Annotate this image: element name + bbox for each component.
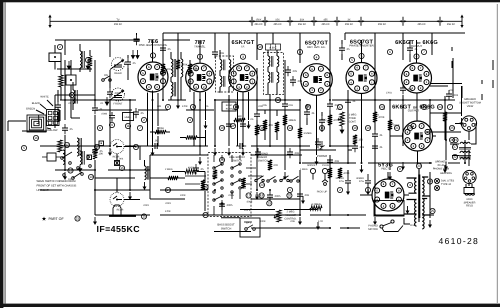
svg-text:4610-28: 4610-28 <box>439 236 480 246</box>
svg-text:.002: .002 <box>449 89 454 92</box>
band coil lower left <box>80 151 84 165</box>
component marker 32 <box>407 182 412 187</box>
antenna coil L1 <box>77 138 82 156</box>
svg-text:HMEL: HMEL <box>125 116 132 119</box>
svg-text:470K: 470K <box>165 210 171 213</box>
svg-text:.01: .01 <box>99 108 103 111</box>
svg-text:23: 23 <box>422 105 426 109</box>
resistor R40 <box>59 75 63 87</box>
wire left column extra <box>58 60 80 122</box>
capacitor C32 <box>125 58 136 68</box>
capacitor C33 <box>134 35 140 45</box>
svg-text:I.F.: I.F. <box>241 44 245 48</box>
component marker 27 <box>219 157 224 162</box>
wave switch wafer 1 <box>213 163 223 205</box>
switch shaft outline <box>113 205 121 216</box>
border frame top black line <box>0 0 500 2</box>
IFT T2 secondary coil <box>229 60 231 71</box>
IFT T2 primary coil lower <box>220 76 225 87</box>
resistor R32 <box>186 135 197 139</box>
wire bus y240 <box>404 218 410 224</box>
capacitor C26 <box>219 200 233 210</box>
svg-text:PART OF: PART OF <box>49 217 65 221</box>
capacitor C7 <box>240 120 251 130</box>
volume control arrow <box>274 215 278 218</box>
svg-text:10K: 10K <box>68 178 73 181</box>
svg-text:5: 5 <box>23 146 25 150</box>
oscillator tank coil <box>145 166 149 180</box>
svg-text:10: 10 <box>258 45 262 49</box>
svg-text:.02: .02 <box>326 120 330 123</box>
capacitor C16 .002 <box>446 90 459 100</box>
tube U6 6K6GT output <box>402 63 432 93</box>
tube U7 6K6GT output 2 <box>403 121 433 151</box>
band switch wafer contacts <box>61 152 92 179</box>
svg-text:17: 17 <box>247 194 251 198</box>
svg-text:9: 9 <box>111 123 113 127</box>
IFT T3 secondary lower <box>277 72 279 83</box>
svg-text:15X: 15X <box>275 18 280 21</box>
capacitor C12 <box>352 142 365 152</box>
svg-text:455 KC: 455 KC <box>273 23 282 26</box>
phono-radio switch contact 2 <box>267 176 276 182</box>
capacitor C24 <box>92 146 103 156</box>
wire top bus segments <box>55 33 465 40</box>
svg-text:120Ω: 120Ω <box>321 119 327 122</box>
svg-text:YELLOW: YELLOW <box>47 129 58 132</box>
svg-text:270Ω: 270Ω <box>240 187 246 190</box>
svg-text:7: 7 <box>423 50 425 54</box>
svg-text:.005: .005 <box>262 104 267 107</box>
resistor R24 <box>213 170 217 179</box>
capacitor C1 .05 <box>62 124 73 134</box>
resistor R26 270ohm <box>241 178 245 188</box>
svg-text:29: 29 <box>260 183 264 187</box>
ground G16 <box>360 165 364 173</box>
high boost switch label <box>229 156 246 162</box>
ground G15 <box>301 196 305 204</box>
filter capacitor C31 <box>356 174 371 187</box>
resistor R22 <box>234 115 245 122</box>
ground G6 <box>198 157 202 165</box>
marker tb2 <box>187 117 192 122</box>
marker ws2 <box>119 165 124 170</box>
capacitor C8 <box>226 120 236 130</box>
svg-text:4.7K: 4.7K <box>318 220 323 223</box>
svg-text:275v: 275v <box>359 180 365 183</box>
svg-text:13: 13 <box>69 169 73 173</box>
marker lm2 <box>68 168 73 173</box>
svg-text:24: 24 <box>438 105 442 109</box>
capacitor C19 <box>254 110 260 120</box>
antenna coupling coil <box>73 90 77 104</box>
component marker 14 <box>305 104 310 109</box>
output transformer winding lower <box>459 151 471 159</box>
svg-text:4: 4 <box>189 118 191 122</box>
tone control arrow <box>338 118 342 121</box>
marker ws5 <box>203 212 208 217</box>
svg-text:13: 13 <box>276 98 280 102</box>
ground G1 <box>63 172 67 180</box>
filter capacitor C30 <box>335 174 351 187</box>
svg-text:13: 13 <box>89 175 93 179</box>
svg-text:.05: .05 <box>99 150 103 153</box>
tone control label <box>349 114 357 124</box>
svg-text:.0001: .0001 <box>165 202 172 205</box>
wire wafer leads <box>117 147 205 212</box>
terminal square a <box>99 141 104 146</box>
resistor R10 <box>283 115 296 125</box>
svg-text:47K: 47K <box>166 68 171 71</box>
svg-text:GREEN: GREEN <box>26 108 35 111</box>
svg-text:15: 15 <box>306 105 310 109</box>
svg-text:6: 6 <box>99 126 101 130</box>
wire tube1 top lead <box>152 40 154 63</box>
component marker 16 <box>337 104 342 109</box>
svg-text:455 KC: 455 KC <box>378 23 387 26</box>
loop antenna <box>27 115 46 132</box>
svg-text:RECT.: RECT. <box>381 167 389 171</box>
svg-text:.05: .05 <box>132 62 136 65</box>
wave switch assembly box <box>208 153 251 217</box>
svg-text:115V: 115V <box>410 224 416 227</box>
wire tube bottom pairs <box>148 92 249 146</box>
svg-text:2 MEG: 2 MEG <box>165 168 173 171</box>
arrow below tone control <box>340 126 344 133</box>
svg-text:.01: .01 <box>379 134 383 137</box>
resistor R2 <box>58 140 62 152</box>
svg-text:IF=455KC: IF=455KC <box>97 224 141 234</box>
capacitor C10 <box>290 76 303 86</box>
capacitor C5 <box>160 44 171 54</box>
svg-text:7: 7 <box>449 105 451 109</box>
capacitor C29 <box>327 156 340 166</box>
component box left mid <box>42 153 61 161</box>
wire tube2 top lead <box>199 40 201 63</box>
ground G3 <box>128 192 132 200</box>
svg-text:18: 18 <box>353 126 357 130</box>
ground G4 <box>151 148 155 156</box>
wire bus y163 <box>300 150 460 163</box>
wire heater bus <box>375 214 434 216</box>
svg-text:.006: .006 <box>219 52 225 55</box>
arrow down a <box>67 61 71 69</box>
svg-text:VIEW: VIEW <box>467 105 474 108</box>
svg-text:.01: .01 <box>352 100 356 103</box>
svg-text:PHONO: PHONO <box>317 154 328 158</box>
svg-text:REAR: REAR <box>114 72 121 75</box>
IFT T3 primary coil <box>268 56 273 67</box>
svg-text:21: 21 <box>395 126 399 130</box>
svg-text:455: 455 <box>323 18 328 21</box>
resistor R39 <box>201 180 205 190</box>
ground G25 <box>108 148 112 156</box>
capacitor C37 <box>339 44 350 54</box>
wire tube7 leads <box>390 136 436 163</box>
capacitor C6 <box>212 48 225 58</box>
resistor R14 <box>373 112 385 122</box>
svg-text:8: 8 <box>299 50 301 54</box>
IFT T2 primary coil <box>220 60 225 71</box>
component marker 17 <box>352 125 357 130</box>
svg-text:470K: 470K <box>343 172 349 175</box>
resistor R3 <box>93 148 103 159</box>
ground G14 <box>316 222 320 230</box>
component marker 3 <box>69 92 74 97</box>
capacitor C20 <box>282 100 288 110</box>
border frame inner left line <box>4 2 7 303</box>
component marker 5 <box>97 125 102 130</box>
svg-text:12: 12 <box>65 143 69 147</box>
marker tb3 <box>230 123 235 128</box>
svg-text:220K: 220K <box>260 220 266 223</box>
component marker 25 <box>449 137 454 142</box>
wire bus y110 <box>95 109 300 111</box>
svg-text:PLUG: PLUG <box>322 164 329 167</box>
svg-text:WHITE: WHITE <box>40 96 49 99</box>
arrow down b <box>86 60 90 69</box>
resistor R5 <box>188 64 198 74</box>
tube U3 6SK7GT <box>229 63 258 92</box>
svg-text:.006: .006 <box>334 160 340 163</box>
resistor R4 <box>161 64 171 74</box>
speaker field label <box>464 198 476 208</box>
svg-text:455 KC: 455 KC <box>321 23 330 26</box>
svg-text:27K: 27K <box>273 164 278 167</box>
svg-text:.05: .05 <box>69 128 73 131</box>
phono-radio switch contact 3 <box>280 176 289 182</box>
component marker 21 <box>407 125 412 130</box>
scattered value labels <box>68 89 454 227</box>
svg-text:.05: .05 <box>346 48 350 51</box>
wave switch wafer rear lower <box>110 193 124 212</box>
wire speaker leads <box>426 113 477 186</box>
svg-text:22: 22 <box>408 126 412 130</box>
bass boost jack box <box>240 218 260 237</box>
component marker 15 <box>319 125 324 130</box>
component marker 18 <box>365 125 370 130</box>
ground G12 <box>298 217 302 225</box>
ground tube pair a <box>156 127 160 135</box>
power transformer T5 <box>405 169 431 229</box>
antenna primary coil <box>80 51 84 68</box>
svg-text:14: 14 <box>166 188 170 192</box>
wire wafer connections <box>185 155 262 215</box>
svg-text:28: 28 <box>220 158 224 162</box>
component marker 13 <box>287 125 292 130</box>
marker ws6 <box>165 187 170 192</box>
capacitor C14 <box>372 130 383 140</box>
capacitor C44 <box>255 148 261 158</box>
ground below tank coil <box>143 182 147 190</box>
speaker plug <box>463 170 476 183</box>
capacitor C48 .0008 in shield <box>101 112 115 128</box>
svg-text:455 KC: 455 KC <box>114 23 123 26</box>
svg-text:HEATERS: HEATERS <box>440 172 452 175</box>
ground below C30 <box>346 187 350 195</box>
capacitor C4 <box>133 108 144 118</box>
resistor R9 <box>255 125 267 135</box>
svg-text:456 KC: 456 KC <box>298 23 307 26</box>
svg-text:16: 16 <box>320 126 324 130</box>
svg-text:270Ω: 270Ω <box>386 92 392 95</box>
volume control label <box>284 211 297 221</box>
resistor R31 <box>155 127 166 134</box>
wire tube5 top lead <box>361 40 363 63</box>
svg-text:CONT.: CONT. <box>349 120 357 123</box>
capacitor C43 <box>193 164 204 174</box>
speaker field coil 600 ohm <box>464 184 475 195</box>
wave switch wafer 2 <box>231 163 241 193</box>
svg-text:A B C: A B C <box>269 45 276 49</box>
svg-text:.01: .01 <box>311 112 315 115</box>
svg-text:1 MEG: 1 MEG <box>300 168 308 171</box>
wire bus y199 <box>150 198 300 200</box>
svg-text:10K: 10K <box>358 139 363 142</box>
tube U8 5Y3G rectifier <box>372 179 404 211</box>
resistor R38 <box>168 176 178 180</box>
ground G2 <box>93 217 97 225</box>
resistor R6 470K <box>176 60 188 69</box>
antenna leads <box>36 100 53 129</box>
svg-text:.0005: .0005 <box>226 204 233 207</box>
component marker 10 <box>233 104 238 109</box>
wire extra left <box>8 33 137 131</box>
IF transformer T3 box <box>264 53 284 95</box>
ground G18 <box>388 172 392 180</box>
svg-text:.006: .006 <box>318 148 323 151</box>
component marker 35 <box>421 49 426 54</box>
svg-text:FRONT: FRONT <box>114 103 123 106</box>
svg-text:.003: .003 <box>297 80 303 83</box>
resistor R19 <box>328 168 332 178</box>
svg-text:22K: 22K <box>157 105 162 108</box>
svg-text:BLACK: BLACK <box>32 102 41 105</box>
svg-text:.0005: .0005 <box>246 201 253 204</box>
IFT T3 part number <box>257 44 262 49</box>
tube U2 7H7 <box>186 63 215 92</box>
oscillator padder coil <box>171 82 176 96</box>
svg-text:3: 3 <box>242 55 244 59</box>
wire tube8 leads <box>360 172 409 195</box>
power transformer marker top <box>416 163 421 168</box>
wire y218 jack lead <box>221 217 240 219</box>
svg-text:BASS BOOST: BASS BOOST <box>217 224 235 227</box>
terminal box left <box>66 75 76 85</box>
capacitor C42 <box>287 148 300 158</box>
component marker 6 <box>137 125 142 130</box>
wire osc coil leads <box>171 52 181 100</box>
svg-text:.005: .005 <box>292 70 298 73</box>
switch index box <box>115 161 120 166</box>
svg-text:470K: 470K <box>378 116 384 119</box>
ground G20 <box>428 220 432 228</box>
capacitor C27 <box>297 190 310 200</box>
phono motor switch <box>380 220 403 232</box>
svg-text:310Ω: 310Ω <box>373 114 379 117</box>
wire bus y215 <box>95 214 404 216</box>
component marker 12 <box>275 97 280 102</box>
dial lamp 1 <box>434 178 439 183</box>
svg-text:4: 4 <box>409 183 411 187</box>
IF transformer T2 box <box>216 56 234 92</box>
svg-text:26: 26 <box>450 138 454 142</box>
phono socket and plug <box>310 168 328 185</box>
wave switch note <box>37 180 77 192</box>
svg-text:270Ω: 270Ω <box>255 194 261 197</box>
wire vertical drops from top <box>65 33 432 63</box>
svg-text:9: 9 <box>192 105 194 109</box>
svg-text:1: 1 <box>289 188 291 192</box>
svg-text:.05: .05 <box>167 48 171 51</box>
svg-text:ON: ON <box>104 74 108 77</box>
wire center verticals <box>153 50 404 215</box>
svg-text:12: 12 <box>260 126 264 130</box>
svg-text:SOCKET: SOCKET <box>307 164 317 167</box>
svg-text:.006: .006 <box>304 194 310 197</box>
svg-text:275v: 275v <box>339 180 345 183</box>
loop antenna marker <box>33 135 38 140</box>
component marker 22 <box>421 104 426 109</box>
component marker 29 <box>287 187 292 192</box>
capacitor C15 <box>400 84 413 94</box>
component marker 8 <box>190 104 195 109</box>
marker lm1 <box>64 142 69 147</box>
component marker 33 <box>349 57 354 62</box>
phono motor label <box>368 225 378 231</box>
output transformer winding upper <box>459 142 471 149</box>
ground G8 <box>227 148 231 156</box>
dial scale line <box>50 20 462 22</box>
IFT T3 leads <box>268 50 277 95</box>
svg-text:.003: .003 <box>359 146 365 149</box>
svg-text:1 MEG: 1 MEG <box>303 132 311 135</box>
wire extra mid <box>150 40 410 140</box>
svg-text:15: 15 <box>134 145 138 149</box>
svg-text:455 KC: 455 KC <box>345 23 354 26</box>
svg-text:3: 3 <box>87 58 89 62</box>
ground G9 <box>241 148 245 156</box>
svg-text:.01: .01 <box>414 48 418 51</box>
svg-text:455 KC: 455 KC <box>417 23 426 26</box>
resistor R12 <box>328 115 340 125</box>
volume pot arrow symbol <box>320 141 325 150</box>
svg-text:7: 7 <box>139 126 141 130</box>
power transformer marker right low <box>430 208 435 213</box>
svg-text:16: 16 <box>34 136 38 140</box>
ground G7 <box>213 148 217 156</box>
svg-text:470K: 470K <box>182 105 188 108</box>
rectifier base outline <box>374 201 404 217</box>
wire bus y209 <box>240 209 317 211</box>
ground G17 <box>373 217 377 225</box>
capacitor C9 <box>285 66 298 76</box>
component marker 19 <box>379 104 384 109</box>
component marker 30 <box>337 187 342 192</box>
resistor R20 4.7MEG <box>310 203 322 210</box>
border frame right gray line <box>497 4 498 303</box>
ground G24 <box>460 118 464 126</box>
svg-text:25: 25 <box>450 126 454 130</box>
component marker 28 <box>259 182 264 187</box>
svg-text:8: 8 <box>399 167 401 171</box>
power transformer marker right <box>427 179 432 184</box>
oscillator coil L2 primary <box>171 59 176 77</box>
svg-text:11: 11 <box>126 124 130 128</box>
resistor R36 <box>353 135 363 144</box>
svg-text:25: 25 <box>431 209 435 213</box>
tube U1 7E6 <box>138 62 168 92</box>
